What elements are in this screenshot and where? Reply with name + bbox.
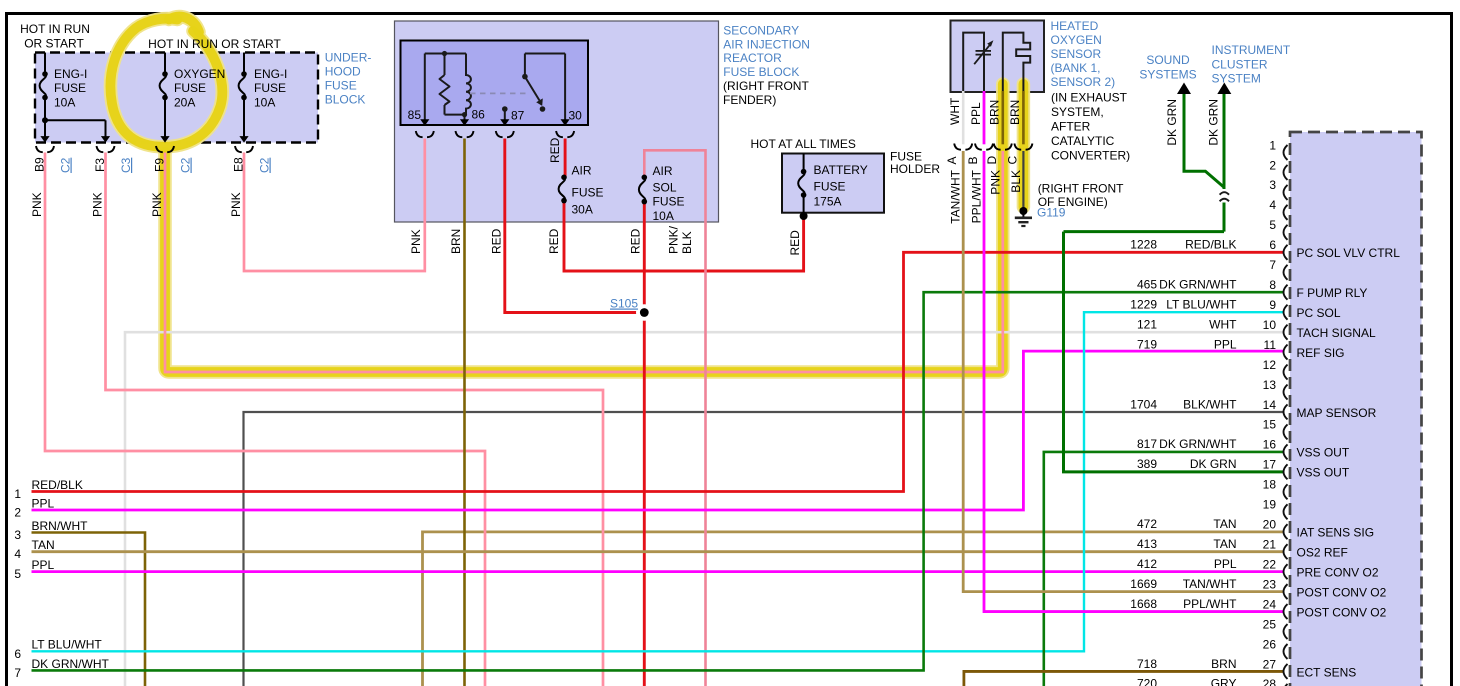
svg-text:BRN: BRN [449,229,463,254]
svg-text:(BANK 1,: (BANK 1, [1051,61,1101,75]
svg-text:14: 14 [1263,398,1277,412]
svg-text:BATTERY: BATTERY [814,163,868,177]
svg-text:PPL: PPL [969,102,983,125]
svg-text:DK GRN: DK GRN [1190,457,1237,471]
svg-text:86: 86 [472,108,486,122]
svg-text:(IN EXHAUST: (IN EXHAUST [1051,91,1128,105]
svg-text:PPL: PPL [1214,337,1237,351]
svg-text:PNK: PNK [229,192,243,217]
svg-text:26: 26 [1263,637,1277,651]
svg-text:VSS OUT: VSS OUT [1297,466,1350,480]
svg-text:87: 87 [511,109,525,123]
svg-text:1: 1 [1269,138,1276,152]
svg-text:8: 8 [1269,278,1276,292]
svg-text:BRN/WHT: BRN/WHT [32,519,89,533]
svg-text:FUSE BLOCK: FUSE BLOCK [723,65,799,79]
svg-text:SOL: SOL [653,181,677,195]
svg-text:HOLDER: HOLDER [890,162,940,176]
svg-text:C3: C3 [119,157,133,173]
svg-text:PPL/WHT: PPL/WHT [970,169,984,223]
svg-text:BRN: BRN [988,100,1002,125]
svg-text:20A: 20A [174,96,195,110]
svg-text:OR START: OR START [24,37,84,51]
svg-text:1668: 1668 [1130,597,1157,611]
svg-text:718: 718 [1137,657,1157,671]
svg-text:BLK: BLK [680,231,694,254]
svg-text:25: 25 [1263,617,1277,631]
svg-text:4: 4 [14,547,21,561]
svg-text:PNK: PNK [409,229,423,254]
svg-text:UNDER-: UNDER- [325,50,372,64]
svg-text:1: 1 [14,487,21,501]
svg-text:PNK: PNK [30,192,44,217]
svg-text:C2: C2 [258,157,272,173]
svg-text:PPL: PPL [1214,557,1237,571]
svg-text:REACTOR: REACTOR [723,51,782,65]
svg-text:SENSOR: SENSOR [1051,47,1102,61]
svg-text:DK GRN/WHT: DK GRN/WHT [1159,437,1237,451]
svg-text:389: 389 [1137,457,1157,471]
svg-text:POST CONV O2: POST CONV O2 [1297,585,1387,599]
svg-text:28: 28 [1263,677,1277,686]
svg-text:17: 17 [1263,458,1277,472]
svg-text:24: 24 [1263,597,1277,611]
svg-text:B: B [966,156,980,164]
svg-text:FUSE: FUSE [54,81,86,95]
svg-text:PPL/WHT: PPL/WHT [1183,597,1237,611]
svg-text:10A: 10A [653,209,674,223]
svg-text:RED: RED [629,228,643,254]
svg-text:22: 22 [1263,557,1277,571]
svg-text:CONVERTER): CONVERTER) [1051,149,1130,163]
svg-text:1229: 1229 [1130,297,1157,311]
svg-text:6: 6 [1269,238,1276,252]
svg-text:2: 2 [1269,158,1276,172]
svg-text:(RIGHT FRONT: (RIGHT FRONT [1038,181,1124,195]
svg-text:AFTER: AFTER [1051,120,1091,134]
svg-text:FUSE: FUSE [653,195,685,209]
svg-text:RED: RED [788,230,802,256]
svg-text:HOT AT ALL TIMES: HOT AT ALL TIMES [751,137,856,151]
svg-text:D: D [985,156,999,165]
svg-text:4: 4 [1269,198,1276,212]
svg-text:5: 5 [14,567,21,581]
svg-text:VSS OUT: VSS OUT [1297,446,1350,460]
svg-text:FUSE: FUSE [174,81,206,95]
svg-text:11: 11 [1264,338,1277,352]
svg-text:GRY: GRY [1211,677,1237,686]
svg-text:85: 85 [408,108,422,122]
svg-text:BLK: BLK [1009,170,1023,193]
svg-text:18: 18 [1263,478,1277,492]
svg-text:3: 3 [14,528,21,542]
svg-text:1228: 1228 [1130,238,1157,252]
svg-text:SECONDARY: SECONDARY [723,23,799,37]
svg-text:C2: C2 [179,157,193,173]
svg-text:WHT: WHT [948,97,962,125]
svg-text:12: 12 [1263,358,1277,372]
svg-text:BLOCK: BLOCK [325,92,366,106]
svg-text:OXYGEN: OXYGEN [1051,33,1102,47]
svg-text:PPL: PPL [32,558,55,572]
svg-text:BRN: BRN [1008,100,1022,125]
svg-text:SENSOR 2): SENSOR 2) [1051,75,1116,89]
svg-text:C: C [1005,156,1019,165]
svg-text:WHT: WHT [1209,317,1237,331]
svg-text:DK GRN: DK GRN [1165,99,1179,146]
svg-text:PNK/: PNK/ [667,225,681,254]
svg-text:TAN: TAN [32,538,55,552]
svg-text:HOOD: HOOD [325,64,361,78]
svg-text:PC SOL: PC SOL [1297,306,1341,320]
svg-text:F9: F9 [153,158,167,172]
svg-text:16: 16 [1263,438,1277,452]
svg-text:PPL: PPL [32,496,55,510]
svg-text:F3: F3 [93,158,107,172]
svg-text:465: 465 [1137,278,1157,292]
svg-text:13: 13 [1263,378,1277,392]
svg-text:RED: RED [547,228,561,254]
svg-text:21: 21 [1263,538,1277,552]
svg-text:FUSE: FUSE [572,185,604,199]
svg-text:5: 5 [1269,218,1276,232]
svg-text:19: 19 [1263,498,1277,512]
svg-text:9: 9 [1269,298,1276,312]
svg-text:LT BLU/WHT: LT BLU/WHT [1166,297,1237,311]
svg-text:SOUND: SOUND [1146,53,1190,67]
svg-text:AIR INJECTION: AIR INJECTION [723,37,810,51]
svg-text:FUSE: FUSE [325,78,357,92]
svg-text:A: A [945,156,959,164]
svg-text:412: 412 [1137,557,1157,571]
svg-text:CLUSTER: CLUSTER [1212,57,1268,71]
svg-text:MAP SENSOR: MAP SENSOR [1297,406,1377,420]
svg-text:DK GRN/WHT: DK GRN/WHT [32,657,110,671]
svg-text:RED/BLK: RED/BLK [32,478,83,492]
svg-text:472: 472 [1137,517,1157,531]
svg-text:DK GRN/WHT: DK GRN/WHT [1159,278,1237,292]
svg-text:121: 121 [1137,317,1157,331]
svg-text:TAN/WHT: TAN/WHT [1183,577,1237,591]
svg-text:AIR: AIR [653,164,673,178]
svg-text:817: 817 [1137,437,1157,451]
svg-text:FUSE: FUSE [254,81,286,95]
svg-text:BRN: BRN [1211,657,1236,671]
svg-text:IAT SENS SIG: IAT SENS SIG [1297,526,1375,540]
svg-text:REF SIG: REF SIG [1297,346,1345,360]
svg-text:RED: RED [548,137,562,163]
svg-text:(RIGHT FRONT: (RIGHT FRONT [723,79,809,93]
svg-text:7: 7 [1269,258,1276,272]
svg-text:E8: E8 [232,157,246,172]
svg-text:10: 10 [1263,318,1277,332]
svg-text:POST CONV O2: POST CONV O2 [1297,605,1387,619]
svg-text:TAN: TAN [1213,517,1236,531]
svg-text:FENDER): FENDER) [723,93,776,107]
svg-text:6: 6 [14,647,21,661]
svg-text:TAN: TAN [1213,537,1236,551]
svg-text:PNK: PNK [91,192,105,217]
svg-text:S105: S105 [610,297,638,311]
svg-text:7: 7 [14,666,21,680]
svg-text:F PUMP RLY: F PUMP RLY [1297,286,1368,300]
svg-text:3: 3 [1269,178,1276,192]
svg-text:C2: C2 [59,157,73,173]
svg-text:RED/BLK: RED/BLK [1185,238,1236,252]
svg-text:RED: RED [490,228,504,254]
svg-text:TACH SIGNAL: TACH SIGNAL [1297,326,1376,340]
svg-text:719: 719 [1137,337,1157,351]
svg-text:PC SOL VLV CTRL: PC SOL VLV CTRL [1297,246,1401,260]
svg-text:1704: 1704 [1130,397,1157,411]
svg-text:G119: G119 [1037,206,1066,220]
svg-text:AIR: AIR [572,163,592,177]
svg-text:SYSTEM,: SYSTEM, [1051,105,1104,119]
svg-text:HEATED: HEATED [1051,19,1099,33]
svg-text:LT BLU/WHT: LT BLU/WHT [32,638,103,652]
svg-text:10A: 10A [254,96,275,110]
svg-text:OXYGEN: OXYGEN [174,67,225,81]
svg-text:23: 23 [1263,577,1277,591]
svg-text:ENG-I: ENG-I [54,67,87,81]
svg-text:30A: 30A [572,202,593,216]
svg-text:PNK: PNK [988,170,1002,195]
svg-text:FUSE: FUSE [814,179,846,193]
svg-text:TAN/WHT: TAN/WHT [949,169,963,223]
svg-text:SYSTEMS: SYSTEMS [1139,68,1196,82]
svg-text:OS2 REF: OS2 REF [1297,546,1348,560]
svg-text:CATALYTIC: CATALYTIC [1051,134,1115,148]
svg-text:30: 30 [569,109,583,123]
svg-text:HOT IN RUN OR START: HOT IN RUN OR START [148,37,281,51]
svg-text:27: 27 [1263,657,1277,671]
svg-text:2: 2 [14,506,21,520]
svg-text:B9: B9 [33,157,47,172]
svg-text:720: 720 [1137,677,1157,686]
svg-text:1669: 1669 [1130,577,1157,591]
svg-text:BLK/WHT: BLK/WHT [1183,397,1237,411]
svg-text:20: 20 [1263,518,1277,532]
svg-text:HOT IN RUN: HOT IN RUN [20,22,90,36]
svg-text:175A: 175A [814,195,842,209]
svg-text:15: 15 [1263,418,1277,432]
svg-text:DK GRN: DK GRN [1207,99,1221,146]
svg-text:ECT SENS: ECT SENS [1297,665,1357,679]
svg-text:INSTRUMENT: INSTRUMENT [1212,43,1291,57]
svg-text:PNK: PNK [150,192,164,217]
svg-text:ENG-I: ENG-I [254,67,287,81]
svg-text:10A: 10A [54,96,75,110]
svg-text:413: 413 [1137,537,1157,551]
svg-text:SYSTEM: SYSTEM [1212,72,1261,86]
svg-text:PRE CONV O2: PRE CONV O2 [1297,565,1379,579]
